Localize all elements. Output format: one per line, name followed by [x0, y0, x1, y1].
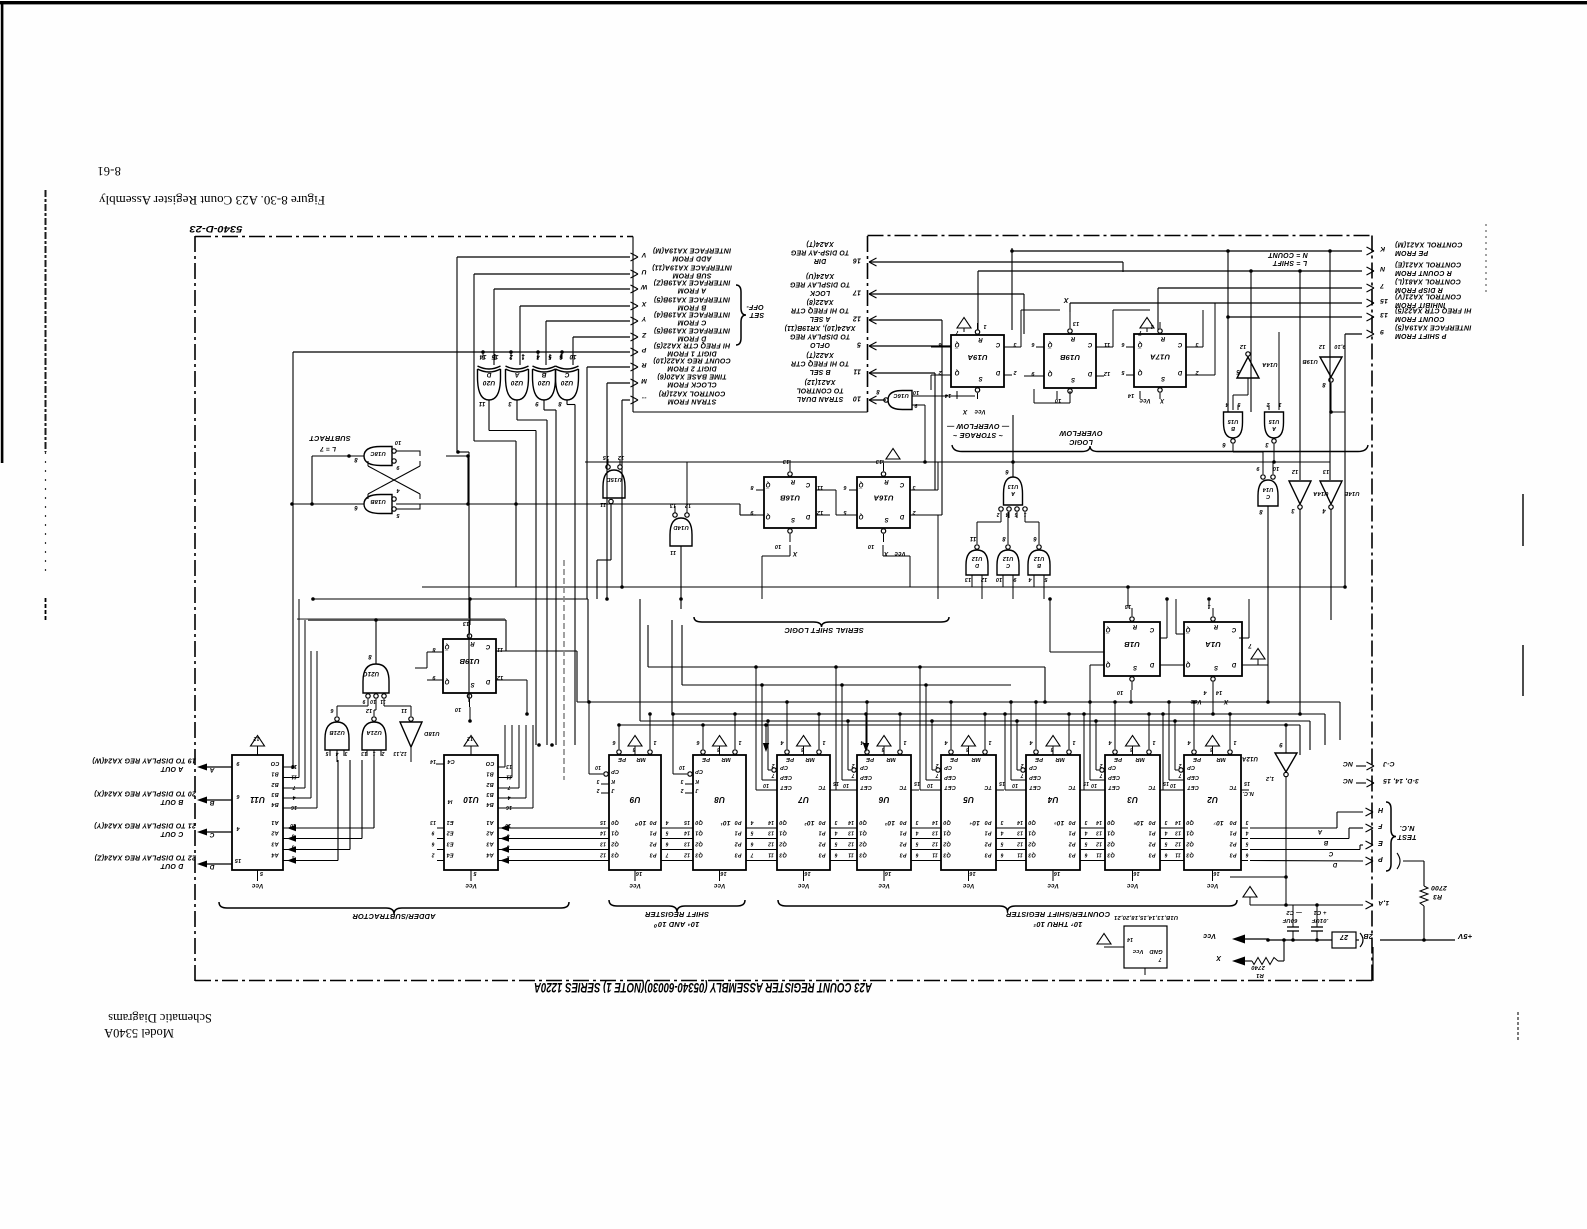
- svg-text:U19B: U19B: [1060, 353, 1081, 362]
- svg-text:MR: MR: [805, 756, 815, 762]
- svg-text:CONTROL XA21(M): CONTROL XA21(M): [1395, 241, 1463, 248]
- svg-text:16: 16: [884, 870, 891, 876]
- svg-text:U14B: U14B: [1344, 490, 1360, 496]
- svg-text:2: 2: [996, 511, 1000, 517]
- svg-text:7: 7: [665, 852, 668, 858]
- svg-text:A2: A2: [486, 830, 494, 836]
- svg-text:Q1: Q1: [695, 830, 703, 836]
- svg-text:TC: TC: [898, 784, 907, 790]
- svg-text:U1B,13,14,15,18,20,21: U1B,13,14,15,18,20,21: [1114, 914, 1178, 920]
- svg-text:Q0: Q0: [1186, 819, 1194, 825]
- svg-text:11: 11: [848, 852, 854, 858]
- svg-text:11: 11: [670, 549, 676, 555]
- svg-text:1,2: 1,2: [1266, 775, 1274, 781]
- svg-text:DIGIT 1 FROM: DIGIT 1 FROM: [667, 350, 716, 357]
- svg-text:17: 17: [852, 289, 861, 296]
- svg-text:3: 3: [1291, 507, 1295, 513]
- svg-text:MR: MR: [886, 756, 896, 762]
- svg-text:Q2: Q2: [695, 841, 703, 847]
- svg-text:11: 11: [506, 774, 512, 780]
- svg-text:6: 6: [1164, 852, 1167, 858]
- svg-text:Q: Q: [444, 678, 449, 684]
- svg-text:U16B: U16B: [780, 494, 801, 503]
- svg-text:S: S: [978, 375, 982, 381]
- svg-text:1: 1: [822, 739, 825, 745]
- svg-text:B1: B1: [271, 771, 278, 777]
- svg-text:CP: CP: [1029, 764, 1037, 770]
- svg-text:A23 COUNT REGISTER ASSEMBLY (0: A23 COUNT REGISTER ASSEMBLY (05340-60030…: [534, 980, 873, 996]
- svg-text:10: 10: [1170, 782, 1176, 788]
- svg-text:Vcc: Vcc: [465, 882, 477, 889]
- svg-text:U18D: U18D: [423, 730, 439, 736]
- svg-text:Model 5340A: Model 5340A: [104, 1026, 174, 1040]
- svg-text:P0: P0: [649, 819, 656, 825]
- svg-text:5: 5: [915, 841, 918, 847]
- svg-text:8: 8: [558, 400, 562, 406]
- svg-text:CEP: CEP: [944, 774, 956, 780]
- svg-text:R: R: [470, 640, 475, 646]
- svg-text:Q0: Q0: [943, 819, 951, 825]
- svg-text:12: 12: [600, 852, 606, 858]
- svg-text:P2: P2: [1148, 841, 1155, 847]
- svg-text:TO DISPLAY REG: TO DISPLAY REG: [789, 333, 850, 340]
- svg-text:Vcc: Vcc: [629, 882, 641, 889]
- svg-text:21 TO DISPLAY REG XA24(Y): 21 TO DISPLAY REG XA24(Y): [94, 821, 197, 828]
- svg-text:E2: E2: [446, 830, 453, 836]
- svg-text:A4: A4: [486, 852, 494, 858]
- svg-text:10: 10: [927, 782, 933, 788]
- svg-text:U18C: U18C: [370, 450, 386, 456]
- svg-text:15: 15: [1380, 297, 1388, 304]
- svg-text:14: 14: [768, 819, 774, 825]
- svg-text:8: 8: [1050, 746, 1053, 752]
- svg-text:1: 1: [988, 739, 991, 745]
- svg-text:12: 12: [1175, 841, 1181, 847]
- svg-text:11: 11: [1104, 341, 1110, 347]
- svg-text:U15: U15: [1227, 418, 1238, 424]
- svg-text:+5V: +5V: [1457, 932, 1472, 941]
- svg-text:INTERFACE XA19B(4): INTERFACE XA19B(4): [653, 310, 730, 317]
- svg-text:U15: U15: [1268, 418, 1279, 424]
- svg-text:Q̅: Q̅: [954, 341, 959, 348]
- svg-text:Vcc: Vcc: [1047, 882, 1059, 889]
- svg-text:U4: U4: [1047, 795, 1058, 804]
- svg-text:5: 5: [1084, 841, 1087, 847]
- svg-text:12: 12: [932, 841, 938, 847]
- svg-text:13: 13: [361, 750, 367, 756]
- svg-text:A: A: [1318, 828, 1324, 834]
- svg-text:9: 9: [362, 698, 365, 704]
- svg-text:10⁴ AND 10⁰: 10⁴ AND 10⁰: [653, 920, 699, 929]
- svg-text:P: P: [1378, 855, 1383, 862]
- svg-text:7: 7: [507, 784, 510, 790]
- svg-text:MR: MR: [1055, 756, 1065, 762]
- svg-text:2: 2: [912, 509, 916, 515]
- svg-text:10: 10: [1117, 689, 1124, 695]
- svg-text:10: 10: [370, 698, 376, 704]
- svg-text:12: 12: [618, 454, 625, 460]
- svg-text:16: 16: [506, 804, 512, 810]
- svg-text:TO DISPLAY REG: TO DISPLAY REG: [789, 281, 850, 288]
- svg-text:CEP: CEP: [780, 774, 792, 780]
- svg-text:XA24(10), XR19B(11): XA24(10), XR19B(11): [784, 324, 857, 331]
- svg-text:TC: TC: [817, 784, 826, 790]
- svg-text:4: 4: [1245, 830, 1249, 836]
- svg-text:6: 6: [834, 852, 837, 858]
- svg-text:Q2: Q2: [1186, 841, 1194, 847]
- svg-text:2: 2: [596, 787, 600, 793]
- svg-text:C: C: [1177, 341, 1182, 347]
- svg-text:H: H: [1377, 806, 1383, 813]
- svg-text:INTERFACE XA19B(5): INTERFACE XA19B(5): [653, 326, 730, 333]
- svg-text:14: 14: [1175, 819, 1181, 825]
- svg-text:PE: PE: [1034, 756, 1043, 762]
- svg-text:STRAN FROM: STRAN FROM: [668, 398, 717, 405]
- svg-text:TC: TC: [1228, 784, 1237, 790]
- svg-text:2740: 2740: [1251, 964, 1266, 970]
- svg-text:D: D: [805, 513, 810, 519]
- svg-text:10: 10: [843, 782, 849, 788]
- svg-text:16: 16: [291, 804, 297, 810]
- svg-text:P0: P0: [1148, 819, 1155, 825]
- svg-text:10: 10: [996, 576, 1003, 582]
- svg-text:2: 2: [680, 787, 684, 793]
- svg-text:7: 7: [1138, 329, 1142, 335]
- svg-text:P SHIFT FROM: P SHIFT FROM: [1395, 332, 1447, 339]
- svg-text:Schematic Diagrams: Schematic Diagrams: [108, 1011, 212, 1025]
- svg-text:P3: P3: [1068, 852, 1075, 858]
- svg-text:N = COUNT: N = COUNT: [1268, 251, 1308, 258]
- svg-text:R: R: [978, 336, 983, 342]
- svg-text:A1: A1: [486, 819, 494, 825]
- svg-text:E4: E4: [446, 852, 453, 858]
- svg-text:TO HI FREQ CTR: TO HI FREQ CTR: [791, 307, 849, 314]
- svg-text:1: 1: [1233, 739, 1236, 745]
- svg-text:5: 5: [1000, 841, 1003, 847]
- svg-text:Vcc: Vcc: [1139, 397, 1151, 403]
- svg-text:11: 11: [291, 774, 297, 780]
- svg-text:7: 7: [935, 772, 938, 778]
- svg-text:14: 14: [1216, 689, 1223, 695]
- svg-text:10: 10: [1055, 397, 1062, 403]
- svg-text:2: 2: [1020, 762, 1024, 768]
- svg-text:E3: E3: [446, 841, 453, 847]
- svg-text:Q: Q: [1185, 661, 1190, 667]
- svg-text:U16C: U16C: [893, 392, 909, 398]
- svg-text:13: 13: [684, 841, 690, 847]
- svg-text:8: 8: [966, 746, 969, 752]
- svg-text:Q: Q: [765, 513, 770, 519]
- svg-text:A2: A2: [271, 830, 279, 836]
- svg-text:Vcc: Vcc: [894, 550, 906, 556]
- svg-text:INTERFACE XA19A(M): INTERFACE XA19A(M): [652, 246, 731, 253]
- svg-text:U7: U7: [798, 795, 809, 804]
- svg-text:A: A: [1011, 490, 1016, 496]
- svg-text:B3: B3: [271, 791, 278, 797]
- svg-text:5: 5: [1245, 841, 1248, 847]
- svg-text:P2: P2: [1229, 841, 1236, 847]
- svg-text:C: C: [995, 341, 1000, 347]
- svg-text:PE FROM: PE FROM: [1395, 249, 1428, 256]
- svg-text:PE: PE: [1113, 756, 1122, 762]
- svg-text:P3: P3: [1229, 852, 1236, 858]
- svg-text:U14: U14: [1263, 486, 1274, 492]
- svg-text:CEP: CEP: [1108, 774, 1120, 780]
- svg-text:C: C: [1149, 626, 1154, 632]
- svg-text:3: 3: [1000, 819, 1003, 825]
- svg-text:11: 11: [1096, 852, 1102, 858]
- svg-text:B FROM: B FROM: [678, 304, 707, 311]
- svg-text:S: S: [1071, 376, 1075, 382]
- svg-text:12: 12: [366, 707, 373, 713]
- svg-text:C: C: [1231, 626, 1236, 632]
- svg-text:B3: B3: [486, 791, 493, 797]
- svg-text:Q2: Q2: [859, 841, 867, 847]
- svg-text:SHIFT REGISTER: SHIFT REGISTER: [645, 910, 709, 919]
- svg-text:Vcc: Vcc: [962, 882, 974, 889]
- svg-text:14: 14: [945, 392, 952, 398]
- svg-text:4: 4: [1108, 739, 1112, 745]
- svg-text:1: 1: [653, 739, 656, 745]
- svg-text:S: S: [791, 516, 795, 522]
- svg-text:3: 3: [915, 819, 918, 825]
- svg-text:P2: P2: [984, 841, 991, 847]
- svg-text:9: 9: [431, 830, 434, 836]
- svg-text:15: 15: [234, 857, 241, 863]
- svg-text:Q3: Q3: [1028, 852, 1036, 858]
- svg-text:12: 12: [817, 509, 824, 515]
- svg-text:U1B: U1B: [1124, 640, 1140, 649]
- svg-text:C: C: [485, 643, 490, 649]
- svg-text:1: 1: [983, 323, 986, 329]
- svg-text:COUNTER/SHIFT REGISTER: COUNTER/SHIFT REGISTER: [1005, 910, 1110, 919]
- svg-text:12: 12: [1319, 343, 1326, 349]
- svg-text:N: N: [1379, 265, 1385, 272]
- svg-text:U11: U11: [250, 795, 265, 804]
- svg-text:B SEL: B SEL: [809, 368, 830, 375]
- svg-text:INTERFACE XA19B(Z): INTERFACE XA19B(Z): [653, 278, 730, 285]
- svg-text:B: B: [1323, 839, 1328, 845]
- svg-text:16: 16: [720, 870, 727, 876]
- svg-text:12: 12: [467, 735, 474, 741]
- svg-text:R1: R1: [1256, 972, 1264, 978]
- svg-text:D: D: [995, 369, 1000, 375]
- svg-text:5: 5: [1236, 368, 1240, 374]
- svg-text:14: 14: [684, 830, 690, 836]
- svg-text:P3: P3: [1148, 852, 1155, 858]
- svg-text:E1: E1: [446, 819, 453, 825]
- svg-text:C: C: [1328, 850, 1333, 856]
- svg-text:12: 12: [848, 841, 854, 847]
- svg-text:CO: CO: [270, 760, 279, 766]
- svg-text:6: 6: [1222, 441, 1226, 447]
- svg-text:4: 4: [236, 825, 240, 831]
- svg-text:2: 2: [851, 762, 855, 768]
- svg-text:Vcc: Vcc: [1190, 698, 1202, 704]
- svg-text:3: 3: [1084, 819, 1087, 825]
- svg-text:10: 10: [913, 389, 920, 395]
- svg-text:6: 6: [354, 504, 358, 510]
- svg-text:C: C: [564, 371, 569, 378]
- svg-text:2: 2: [431, 852, 435, 858]
- svg-text:13: 13: [506, 763, 512, 769]
- svg-text:Q: Q: [1137, 369, 1142, 375]
- svg-text:TC: TC: [1147, 784, 1156, 790]
- svg-text:E: E: [1378, 839, 1383, 846]
- svg-text:A: A: [514, 371, 520, 378]
- svg-text:U20: U20: [561, 379, 574, 386]
- svg-text:P0: P0: [818, 819, 825, 825]
- svg-text:1: 1: [1152, 739, 1155, 745]
- svg-text:P0: P0: [1229, 819, 1236, 825]
- svg-text:A1: A1: [271, 819, 279, 825]
- svg-text:D: D: [975, 562, 979, 568]
- svg-text:11: 11: [1175, 852, 1181, 858]
- svg-text:MR: MR: [1216, 756, 1226, 762]
- svg-text:11: 11: [380, 698, 386, 704]
- svg-text:C4: C4: [447, 758, 454, 764]
- svg-text:10⁵: 10⁵: [1054, 819, 1065, 826]
- svg-text:Q1: Q1: [859, 830, 867, 836]
- svg-text:U1A: U1A: [1205, 640, 1221, 649]
- svg-text:TC: TC: [1067, 784, 1076, 790]
- svg-text:9: 9: [535, 400, 539, 406]
- svg-text:10⁷: 10⁷: [1213, 819, 1224, 826]
- svg-text:R: R: [790, 478, 795, 484]
- svg-text:8: 8: [876, 388, 880, 394]
- svg-text:X: X: [792, 550, 798, 557]
- svg-text:PE: PE: [617, 756, 626, 762]
- svg-text:13: 13: [848, 830, 854, 836]
- svg-text:Q3: Q3: [779, 852, 787, 858]
- svg-text:Q1: Q1: [1028, 830, 1036, 836]
- svg-text:MR: MR: [1135, 756, 1145, 762]
- svg-text:INTERFACE XA19B(5): INTERFACE XA19B(5): [653, 295, 730, 302]
- svg-text:P1: P1: [1229, 830, 1236, 836]
- svg-text:3: 3: [912, 484, 915, 490]
- svg-text:D FROM: D FROM: [678, 335, 707, 342]
- svg-text:Q1: Q1: [611, 830, 619, 836]
- svg-text:12: 12: [1240, 343, 1247, 349]
- svg-text:CP: CP: [860, 764, 868, 770]
- svg-text:C: C: [1087, 341, 1092, 347]
- svg-text:7: 7: [1099, 772, 1102, 778]
- svg-text:7: 7: [750, 852, 753, 858]
- svg-text:16: 16: [1053, 870, 1060, 876]
- svg-text:1: 1: [1072, 739, 1075, 745]
- svg-text:B4: B4: [486, 801, 493, 807]
- svg-text:XA24(U): XA24(U): [805, 272, 835, 279]
- svg-text:16: 16: [853, 257, 861, 264]
- svg-text:DIGIT 2 FROM: DIGIT 2 FROM: [667, 365, 716, 372]
- svg-text:I4: I4: [448, 798, 453, 804]
- svg-text:M: M: [641, 377, 647, 384]
- svg-text:R: R: [884, 478, 889, 484]
- svg-text:X: X: [962, 408, 968, 415]
- svg-text:A3: A3: [271, 841, 279, 847]
- svg-text:Q2: Q2: [779, 841, 787, 847]
- svg-text:K: K: [1379, 245, 1385, 252]
- svg-text:11: 11: [497, 646, 503, 652]
- svg-text:13: 13: [932, 830, 938, 836]
- svg-text:U21C: U21C: [363, 670, 380, 676]
- svg-text:2: 2: [1178, 762, 1182, 768]
- svg-text:R COUNT FROM: R COUNT FROM: [1395, 269, 1452, 276]
- svg-text:C: C: [209, 831, 214, 838]
- svg-text:7: 7: [292, 784, 295, 790]
- svg-text:4: 4: [1000, 830, 1004, 836]
- svg-text:PE: PE: [701, 756, 710, 762]
- svg-text:Q: Q: [1105, 661, 1110, 667]
- svg-text:4: 4: [1029, 739, 1033, 745]
- svg-text:Q̅: Q̅: [1105, 626, 1110, 633]
- svg-text:20 TO DISPLAY REG XA24(X): 20 TO DISPLAY REG XA24(X): [94, 789, 197, 796]
- svg-text:B1: B1: [486, 771, 493, 777]
- svg-text:Q̅: Q̅: [1137, 341, 1142, 348]
- svg-text:16: 16: [1133, 870, 1140, 876]
- svg-text:8: 8: [1322, 381, 1326, 387]
- svg-text:A OUT: A OUT: [160, 765, 184, 772]
- svg-text:13: 13: [965, 576, 972, 582]
- svg-text:SET: SET: [749, 311, 764, 320]
- svg-text:CET: CET: [780, 784, 792, 790]
- svg-text:SERIAL SHIFT LOGIC: SERIAL SHIFT LOGIC: [784, 626, 864, 635]
- svg-text:11: 11: [768, 852, 774, 858]
- svg-text:PE: PE: [1192, 756, 1201, 762]
- svg-text:10: 10: [679, 764, 685, 770]
- svg-text:13: 13: [768, 830, 774, 836]
- svg-text:U5: U5: [963, 795, 974, 804]
- svg-text:U2: U2: [1207, 795, 1218, 804]
- svg-text:5: 5: [665, 830, 668, 836]
- svg-text:15: 15: [1244, 780, 1250, 786]
- svg-text:8: 8: [1259, 508, 1263, 514]
- svg-text:8: 8: [717, 746, 720, 752]
- svg-text:P2: P2: [899, 841, 906, 847]
- svg-text:8-61: 8-61: [97, 164, 121, 178]
- svg-text:D: D: [1231, 661, 1236, 667]
- svg-text:P2: P2: [1068, 841, 1075, 847]
- svg-text:3-D, 14, 15: 3-D, 14, 15: [1383, 777, 1419, 784]
- svg-text:Vcc: Vcc: [1203, 932, 1216, 939]
- svg-text:12: 12: [497, 674, 504, 680]
- svg-text:P0: P0: [984, 819, 991, 825]
- svg-text:Q2: Q2: [1107, 841, 1115, 847]
- svg-text:Z: Z: [641, 331, 647, 338]
- svg-text:CP: CP: [611, 768, 619, 774]
- svg-text:CEP: CEP: [860, 774, 872, 780]
- svg-text:A FROM: A FROM: [678, 287, 708, 294]
- svg-text:3: 3: [1245, 819, 1248, 825]
- svg-text:P1: P1: [1148, 830, 1155, 836]
- svg-text:15: 15: [999, 780, 1005, 786]
- svg-text:3: 3: [1265, 441, 1269, 447]
- svg-text:Vcc: Vcc: [797, 882, 809, 889]
- svg-text:Q2: Q2: [1028, 841, 1036, 847]
- svg-text:13: 13: [1017, 830, 1023, 836]
- svg-text:CET: CET: [860, 784, 872, 790]
- svg-text:DIR: DIR: [814, 257, 826, 264]
- svg-text:5: 5: [857, 341, 861, 348]
- svg-text:HI FREQ CTR XA22(5): HI FREQ CTR XA22(5): [653, 341, 730, 348]
- svg-text:P2: P2: [734, 841, 741, 847]
- svg-text:TC: TC: [983, 784, 992, 790]
- svg-text:Q3: Q3: [611, 852, 619, 858]
- svg-text:Q3: Q3: [1186, 852, 1194, 858]
- svg-text:10: 10: [763, 782, 769, 788]
- svg-text:Q: Q: [858, 513, 863, 519]
- svg-text:CONTROL XA21(R): CONTROL XA21(R): [658, 389, 725, 396]
